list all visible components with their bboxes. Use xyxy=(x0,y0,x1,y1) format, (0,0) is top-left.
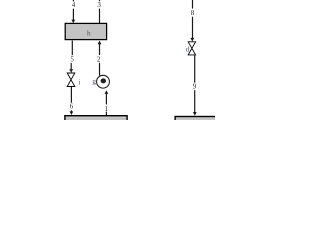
tank b (bottom right box, cut off) xyxy=(175,117,225,127)
arrowhead wire 6 into tank a xyxy=(70,111,74,115)
wire 8 xyxy=(192,0,194,9)
svg-text:3: 3 xyxy=(97,1,101,9)
wire 9 xyxy=(194,55,196,82)
arrowhead wire 8 into valve d xyxy=(190,38,194,42)
svg-text:4: 4 xyxy=(72,1,76,9)
arrowhead wire 4 into unit h xyxy=(71,20,75,24)
svg-text:5: 5 xyxy=(70,55,74,63)
wire 2 lower into pump g xyxy=(99,63,102,76)
wire 6 lower xyxy=(70,110,72,112)
svg-text:h: h xyxy=(87,29,91,37)
wire 3 top stub xyxy=(99,0,101,1)
wire 2 xyxy=(99,44,101,55)
wire 8 lower xyxy=(192,17,194,38)
wire 3 xyxy=(99,9,101,24)
wire 5 lower xyxy=(70,63,72,70)
wire 1 xyxy=(105,94,107,105)
arrowhead wire 5 into valve i xyxy=(69,69,73,73)
svg-text:i: i xyxy=(78,79,80,87)
arrowhead wire 2 into unit h xyxy=(98,41,102,45)
wire 9 lower xyxy=(194,90,196,112)
svg-text:8: 8 xyxy=(191,9,195,17)
arrowhead wire 9 into tank b xyxy=(193,112,197,116)
arrowhead wire 1 into pump g xyxy=(105,90,109,94)
valve d xyxy=(186,42,196,55)
pump g xyxy=(92,75,109,88)
tank a (bottom left box, cut off) xyxy=(65,116,127,126)
svg-text:g: g xyxy=(92,77,96,85)
wire 4 top stub xyxy=(72,0,74,1)
svg-text:6: 6 xyxy=(70,103,74,111)
svg-text:9: 9 xyxy=(193,83,197,91)
wire 5 xyxy=(71,41,73,56)
wire 1 lower xyxy=(105,112,107,116)
svg-text:2: 2 xyxy=(97,55,101,63)
wire 4 xyxy=(72,9,74,20)
unit h xyxy=(65,23,106,39)
valve i xyxy=(67,73,80,87)
wire 6 xyxy=(70,87,72,103)
svg-text:d: d xyxy=(186,45,190,53)
